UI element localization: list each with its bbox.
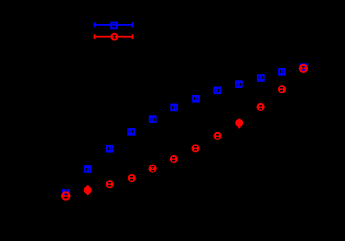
legend entry: red series errorbar sample xyxy=(94,34,134,40)
data point B8 blue square xyxy=(213,87,221,95)
data point R4 red open circle xyxy=(128,174,136,182)
data point R7 red open circle xyxy=(192,144,200,152)
data point R8 red open circle xyxy=(214,132,222,140)
data point B5 blue square xyxy=(149,115,157,123)
data point B4 blue square xyxy=(127,128,135,136)
data point R1 red open circle (overlaps B1) xyxy=(61,192,70,199)
data point R11 red open circle xyxy=(278,85,286,93)
data point R6 red open circle xyxy=(170,155,178,163)
data point B10 blue square xyxy=(257,74,265,82)
data point B7 blue square xyxy=(192,95,200,103)
data point B6 blue square xyxy=(170,104,178,112)
legend entry: blue series errorbar sample xyxy=(94,22,134,28)
data point B3 blue square xyxy=(106,145,114,153)
data point R3 red open circle xyxy=(106,180,114,188)
data point B9 blue square xyxy=(235,80,243,88)
data point B1 blue square (overlapped) xyxy=(62,189,70,197)
data point R5 red open circle xyxy=(149,165,157,173)
data point R12 red open circle (overlaps B12) xyxy=(299,65,308,72)
data point B12 blue square (overlapped) xyxy=(300,63,308,71)
data point B2 blue square xyxy=(84,165,92,173)
data point R9 red filled circle xyxy=(235,119,243,129)
data point R10 red open circle xyxy=(257,103,265,111)
data point B11 blue square xyxy=(278,68,286,76)
data point R2 red filled circle xyxy=(84,185,92,195)
